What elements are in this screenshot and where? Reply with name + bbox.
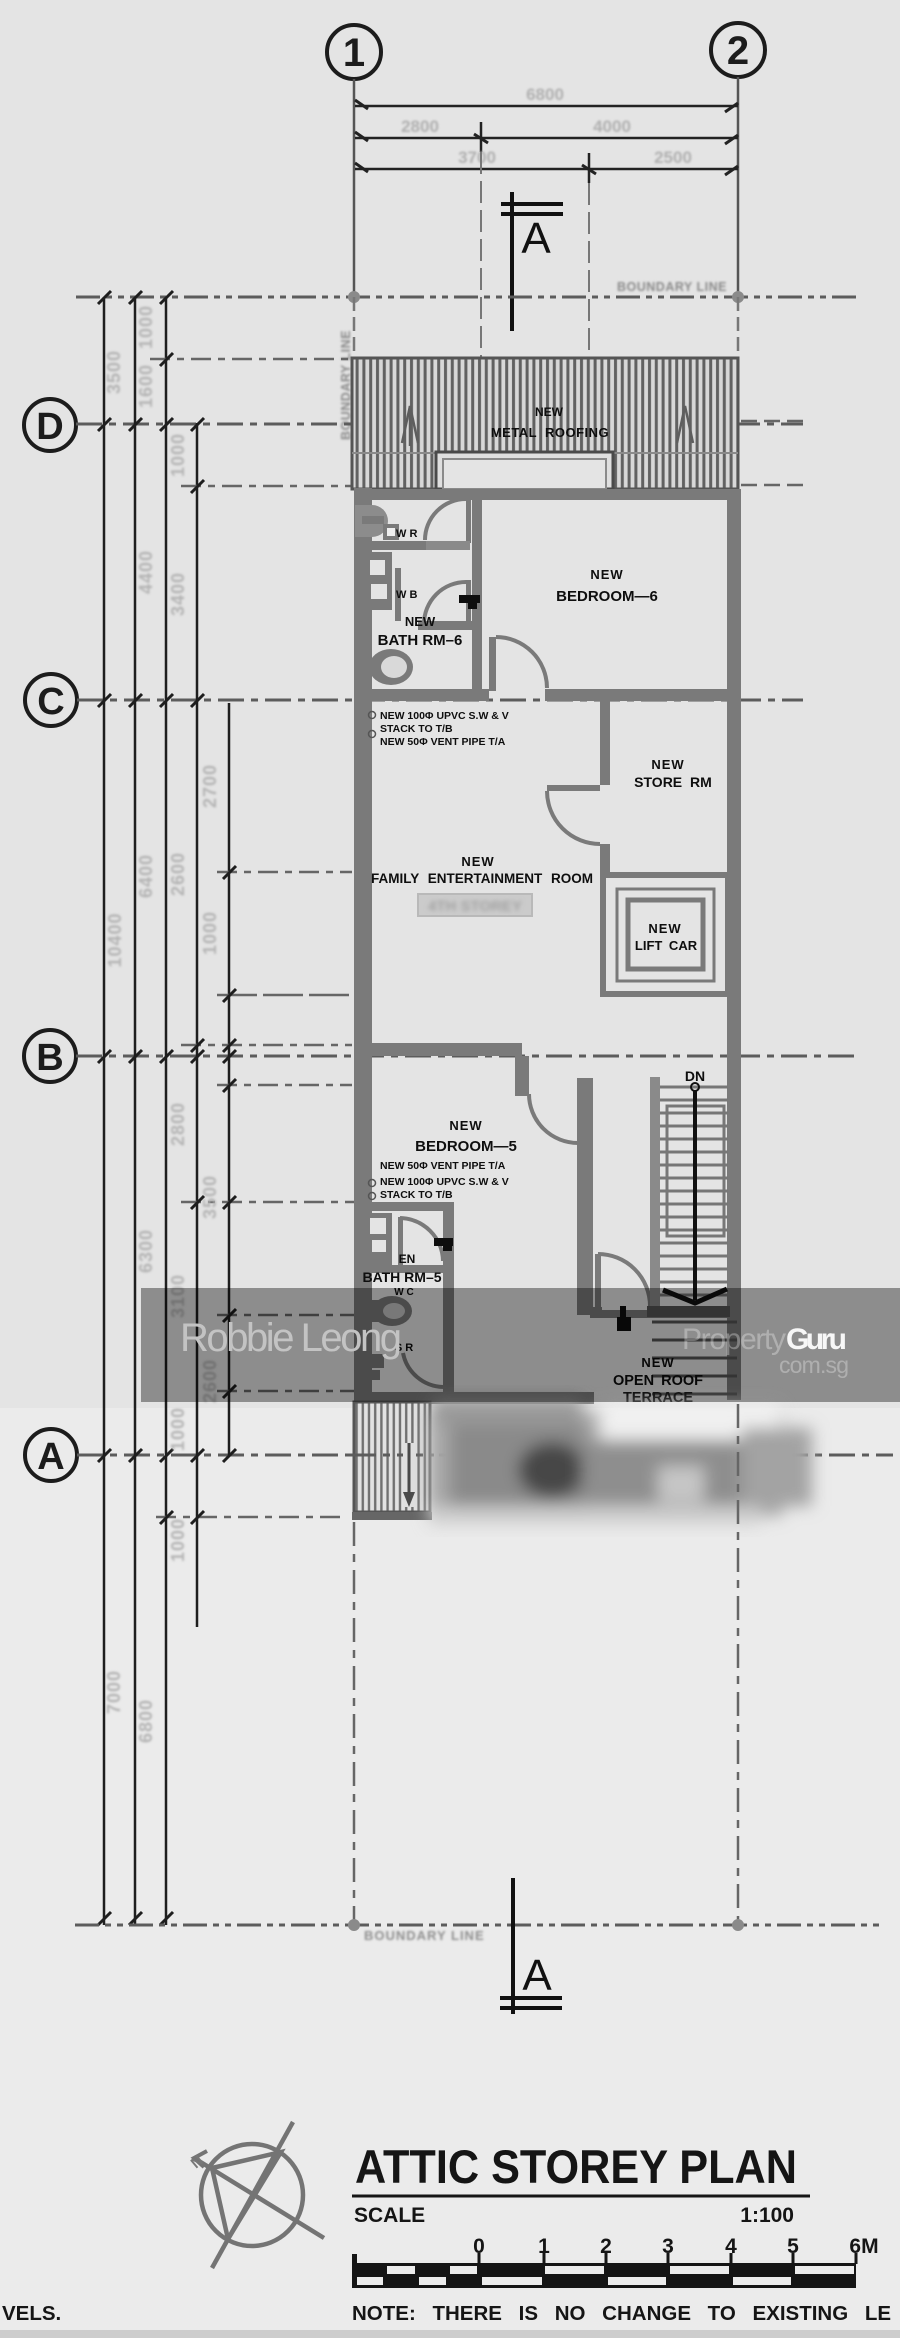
aux dashed h y1391 xyxy=(217,1390,354,1393)
stair treads xyxy=(660,1100,728,1295)
svg-text:4TH STOREY: 4TH STOREY xyxy=(428,898,522,915)
svg-text:1000: 1000 xyxy=(136,305,156,349)
stair inner box xyxy=(667,1106,724,1236)
svg-text:VELS.: VELS. xyxy=(2,2302,61,2325)
bath6 wc tank xyxy=(356,648,372,686)
dim chain line v2 xyxy=(134,297,137,1925)
svg-text:2800: 2800 xyxy=(168,1102,188,1146)
grid 2 stem xyxy=(737,77,740,297)
aux line h y995 xyxy=(217,994,352,997)
switch symbol bedroom6 xyxy=(459,595,480,603)
aux dashed h y872 xyxy=(217,871,352,874)
svg-text:7000: 7000 xyxy=(104,1670,124,1714)
svg-text:1:100: 1:100 xyxy=(740,2204,794,2227)
bath6 shower top xyxy=(355,505,399,540)
svg-text:Property: Property xyxy=(682,1323,786,1356)
boundary line bottom xyxy=(75,1919,882,1931)
metal roofing hatch xyxy=(352,358,738,489)
pipe circles top xyxy=(369,712,376,719)
grid1 stem to roof xyxy=(353,297,356,358)
svg-text:NEW 100Φ UPVC S.W & V: NEW 100Φ UPVC S.W & V xyxy=(380,1176,509,1188)
dashed boundary v left below plan xyxy=(353,1522,356,1925)
svg-text:FAMILY ENTERTAINMENT ROOM: FAMILY ENTERTAINMENT ROOM xyxy=(371,871,593,886)
dim chain line v1 xyxy=(103,297,106,1925)
svg-text:SCALE: SCALE xyxy=(354,2204,425,2227)
aux dashed h y486 xyxy=(181,485,352,488)
svg-text:2500: 2500 xyxy=(654,148,692,167)
dim line 6800 xyxy=(355,100,738,112)
dim tick marks xyxy=(98,291,236,1925)
svg-text:BEDROOM—6: BEDROOM—6 xyxy=(556,588,658,605)
svg-text:3400: 3400 xyxy=(168,572,188,616)
bath6 door1 leaf xyxy=(466,499,471,543)
svg-text:1600: 1600 xyxy=(136,364,156,408)
bedroom5 door arc xyxy=(529,1094,578,1143)
right aux dash y485 xyxy=(741,484,803,487)
wall top bedroom6 xyxy=(354,489,741,500)
EN bath door arc xyxy=(400,1218,443,1261)
scale bar end cap xyxy=(352,2254,357,2288)
grid bubble C xyxy=(25,674,77,726)
svg-text:6400: 6400 xyxy=(136,854,156,898)
lift shaft inner xyxy=(617,889,714,981)
grid 1 stem xyxy=(353,79,356,297)
roof cutout panel xyxy=(436,452,613,489)
svg-text:A: A xyxy=(37,1436,64,1478)
svg-text:NEW: NEW xyxy=(535,405,564,419)
svg-text:BATH RM–6: BATH RM–6 xyxy=(378,632,463,649)
wall right outer xyxy=(727,489,741,1400)
boundary line top xyxy=(76,291,862,303)
landing wall xyxy=(590,1310,741,1318)
scale bar white cells top row xyxy=(387,2266,854,2274)
svg-text:BATH RM–5: BATH RM–5 xyxy=(362,1269,441,1285)
aux dashed h y1202 xyxy=(181,1201,354,1204)
svg-text:NEW 100Φ UPVC S.W & V: NEW 100Φ UPVC S.W & V xyxy=(380,710,509,722)
svg-text:A: A xyxy=(521,214,551,263)
svg-text:NEW: NEW xyxy=(648,921,681,936)
dim line 3700/2500 xyxy=(355,153,738,183)
section marker A bottom xyxy=(500,1878,562,2014)
svg-text:D: D xyxy=(36,406,63,448)
svg-text:NEW: NEW xyxy=(449,1118,482,1133)
grid line A xyxy=(77,1454,893,1457)
svg-text:2700: 2700 xyxy=(200,764,220,808)
scale bar white cells bottom row xyxy=(357,2277,791,2285)
terrace door symbol xyxy=(620,1306,626,1318)
rotated dim labels col1 xyxy=(104,305,220,1743)
stair bottom edge xyxy=(647,1306,730,1317)
svg-text:6800: 6800 xyxy=(526,85,564,104)
aux dashed h y1517 xyxy=(156,1516,345,1519)
svg-text:DN: DN xyxy=(685,1068,705,1084)
svg-text:NEW: NEW xyxy=(405,614,436,629)
EN bath counter xyxy=(364,1213,392,1265)
bath6 door2 leaf xyxy=(466,580,471,624)
title underline xyxy=(352,2195,810,2198)
grid bubble 1 xyxy=(327,25,381,79)
label NEW OPEN ROOF TERRACE xyxy=(613,1355,703,1406)
dim extension x=481 xyxy=(480,152,482,358)
svg-text:BEDROOM—5: BEDROOM—5 xyxy=(415,1138,517,1155)
svg-text:6300: 6300 xyxy=(136,1229,156,1273)
EN bath partition xyxy=(366,1265,443,1273)
svg-text:com.sg: com.sg xyxy=(779,1352,849,1378)
pipe note top xyxy=(380,710,509,748)
EN bath door leaf xyxy=(398,1217,403,1265)
pipe circles bedroom5 xyxy=(369,1180,376,1187)
hatch bottom edge xyxy=(352,1512,432,1520)
terrace door arc xyxy=(598,1254,650,1306)
EN bath wc tank xyxy=(368,1300,382,1322)
grid line B xyxy=(76,1055,858,1058)
stairs top edge xyxy=(660,1086,728,1089)
dim chain line v4 xyxy=(196,423,199,1627)
svg-text:C: C xyxy=(37,681,64,723)
grid line C xyxy=(77,699,803,702)
switch symbol bedroom5 xyxy=(434,1238,453,1246)
stairs left rail xyxy=(650,1077,660,1312)
bath6 vanity xyxy=(364,552,401,621)
aux dashed h y1045 xyxy=(181,1044,352,1047)
svg-text:METAL ROOFING: METAL ROOFING xyxy=(491,425,609,440)
svg-text:1000: 1000 xyxy=(168,433,188,477)
dim chain line v5 xyxy=(228,703,231,1455)
svg-text:NEW 50Φ VENT PIPE T/A: NEW 50Φ VENT PIPE T/A xyxy=(380,1160,506,1172)
store door arc xyxy=(547,791,600,844)
bedroom6 door leaf xyxy=(489,637,496,691)
svg-text:NEW: NEW xyxy=(590,567,623,582)
svg-text:4000: 4000 xyxy=(593,117,631,136)
svg-text:4400: 4400 xyxy=(136,550,156,594)
wall bath6 partition2 xyxy=(418,621,472,630)
wall left outer xyxy=(354,488,372,1404)
wall bedroom5/EN bath bottom xyxy=(354,1392,594,1404)
wall bedroom6 bottom right seg xyxy=(545,689,741,701)
svg-text:6M: 6M xyxy=(849,2235,878,2258)
svg-text:1: 1 xyxy=(343,31,365,75)
svg-text:STORE RM: STORE RM xyxy=(634,774,712,790)
wall bath6 partition1 xyxy=(354,541,426,550)
stair arrow line xyxy=(691,1083,699,1091)
section marker A top xyxy=(501,192,563,331)
store door leaf xyxy=(547,785,600,791)
scale bar body xyxy=(354,2263,856,2288)
svg-text:1000: 1000 xyxy=(168,1518,188,1562)
lower hatched terrace xyxy=(354,1402,430,1512)
wall FER/store lower stub xyxy=(600,844,610,875)
svg-text:6800: 6800 xyxy=(136,1699,156,1743)
pipe note bedroom5 xyxy=(380,1160,509,1201)
aux dashed h y1085 xyxy=(217,1084,352,1087)
blur smudge group xyxy=(428,1398,812,1524)
bath6 door1 arc xyxy=(425,499,466,540)
compass xyxy=(194,2122,324,2268)
roof label NEW METAL ROOFING xyxy=(491,405,609,440)
EN bath lower door arc xyxy=(403,1353,443,1387)
terrace door leaf xyxy=(595,1254,601,1310)
wall FER bottom xyxy=(354,1043,522,1056)
EN bath wc bowl xyxy=(372,1296,412,1326)
scale bar ticks xyxy=(479,2253,856,2264)
scale bar numbers xyxy=(473,2235,878,2258)
bath6 door2 arc xyxy=(424,582,466,624)
grid line D xyxy=(76,423,803,426)
svg-text:BOUNDARY LINE: BOUNDARY LINE xyxy=(617,280,727,294)
svg-text:LIFT CAR: LIFT CAR xyxy=(635,938,698,953)
erased label box xyxy=(418,894,532,916)
wall jog bedroom5 xyxy=(515,1056,529,1096)
svg-text:A: A xyxy=(522,1951,552,2000)
svg-text:1000: 1000 xyxy=(200,911,220,955)
grid bubble A xyxy=(25,1429,77,1481)
terrace deck lines xyxy=(652,1322,737,1394)
background lower xyxy=(0,1408,900,2338)
dim extension x=589 xyxy=(588,183,590,358)
aux tick marks xyxy=(160,353,236,1524)
svg-text:B: B xyxy=(36,1037,63,1079)
svg-text:NEW: NEW xyxy=(461,854,494,869)
wall FER/store upper xyxy=(600,700,610,785)
svg-text:2800: 2800 xyxy=(401,117,439,136)
dim line 2800/4000 xyxy=(355,122,738,152)
svg-text:NOTE: THERE IS NO CHANGE TO EX: NOTE: THERE IS NO CHANGE TO EXISTING LE xyxy=(352,2302,891,2325)
stair arrow head xyxy=(663,1289,727,1303)
lift shaft outer xyxy=(603,875,728,994)
svg-text:2: 2 xyxy=(727,29,749,73)
EN bath right wall xyxy=(443,1202,454,1394)
right aux dash y421 xyxy=(741,420,803,423)
dashed boundary v right below plan xyxy=(737,1404,740,1925)
lift car xyxy=(628,900,703,969)
aux dashed h y1315 xyxy=(217,1314,354,1317)
bedroom6 door arc xyxy=(496,637,547,688)
svg-text:EN: EN xyxy=(399,1252,416,1266)
roof ridge arrow right xyxy=(677,406,693,443)
EN bath top wall xyxy=(354,1202,454,1211)
svg-text:Robbie Leong: Robbie Leong xyxy=(180,1316,402,1360)
grid bubble D xyxy=(24,399,76,451)
wall bedroom6 bottom left seg xyxy=(354,689,489,701)
svg-text:3700: 3700 xyxy=(458,148,496,167)
svg-text:STACK TO T/B: STACK TO T/B xyxy=(380,723,453,735)
svg-text:NEW 50Φ VENT PIPE T/A: NEW 50Φ VENT PIPE T/A xyxy=(380,736,506,748)
svg-text:BOUNDARY LINE: BOUNDARY LINE xyxy=(364,1928,485,1943)
bottom edge strip xyxy=(0,2330,900,2338)
watermark band xyxy=(141,1288,900,1402)
roof ridge arrow left xyxy=(402,406,418,446)
aux dashed h y359 xyxy=(150,358,352,361)
svg-text:W R: W R xyxy=(396,528,417,540)
hatch down arrow xyxy=(403,1443,416,1507)
wall bedroom5 right xyxy=(577,1078,593,1315)
bath6 ledge below door1 xyxy=(426,541,470,550)
svg-text:3500: 3500 xyxy=(104,350,124,394)
dim chain line v3 xyxy=(165,297,168,1925)
svg-text:ATTIC STOREY PLAN: ATTIC STOREY PLAN xyxy=(355,2140,797,2193)
EN bath shower bottom xyxy=(362,1354,384,1368)
svg-text:10400: 10400 xyxy=(105,912,125,967)
svg-text:STACK TO T/B: STACK TO T/B xyxy=(380,1189,453,1201)
grid bubble B xyxy=(24,1030,76,1082)
svg-text:NEW: NEW xyxy=(651,757,684,772)
grid2 stem to roof xyxy=(737,297,740,358)
grid bubble 2 xyxy=(711,23,765,77)
bath6 wc bowl xyxy=(369,649,413,685)
svg-text:2600: 2600 xyxy=(168,852,188,896)
wall bath6 divider xyxy=(472,500,482,690)
grid line A overlay on hatch xyxy=(350,1454,434,1457)
background upper xyxy=(0,0,900,1408)
svg-text:W B: W B xyxy=(396,589,417,601)
svg-text:1000: 1000 xyxy=(168,1407,188,1451)
